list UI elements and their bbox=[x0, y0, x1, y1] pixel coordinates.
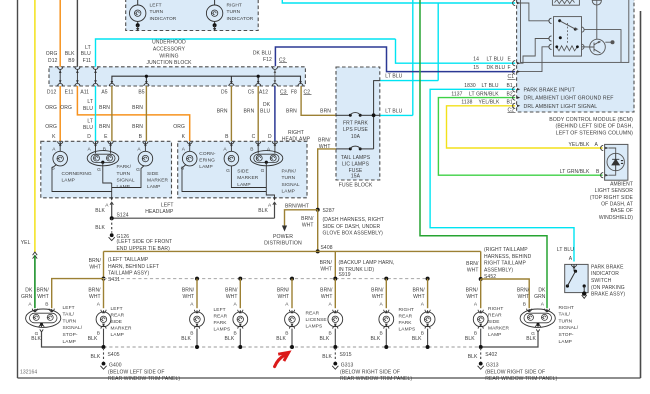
svg-text:15: 15 bbox=[473, 65, 479, 71]
wire YEL/BLK 1138 ambient signal bbox=[447, 106, 603, 148]
svg-text:D12: D12 bbox=[47, 89, 57, 95]
label BRN/WHT at fuse 2 input bbox=[318, 138, 331, 150]
svg-text:JUNCTION BLOCK: JUNCTION BLOCK bbox=[146, 60, 192, 66]
svg-text:LT BLU: LT BLU bbox=[385, 74, 402, 80]
wire LT BLU vertical B (fuse to top net) bbox=[412, 0, 414, 115]
svg-text:ORG: ORG bbox=[173, 124, 185, 130]
svg-text:CORNERING: CORNERING bbox=[62, 171, 92, 177]
lamp LEFT REAR PARK 1 bbox=[181, 302, 204, 347]
junction block caption bbox=[146, 39, 192, 66]
svg-text:WHT: WHT bbox=[320, 267, 332, 273]
svg-text:S402: S402 bbox=[485, 352, 497, 358]
svg-text:G313: G313 bbox=[341, 363, 354, 369]
left cornering lamp bbox=[51, 141, 92, 183]
svg-text:BASE OF: BASE OF bbox=[611, 208, 633, 214]
svg-text:TURN: TURN bbox=[117, 171, 131, 177]
splice S405 bbox=[91, 348, 120, 362]
svg-text:BLK: BLK bbox=[95, 225, 105, 231]
svg-text:F11: F11 bbox=[83, 58, 92, 64]
wire LT BLU A11 to left park/turn lamp bbox=[95, 86, 97, 141]
lamp RIGHT TURN INDICATOR bbox=[206, 0, 253, 31]
svg-text:G: G bbox=[97, 167, 101, 173]
svg-text:BRN/: BRN/ bbox=[320, 288, 333, 294]
svg-text:POWER: POWER bbox=[273, 234, 293, 240]
svg-text:(LEFT TAILLAMP: (LEFT TAILLAMP bbox=[108, 257, 149, 263]
lamp LEFT REAR PARK 2 bbox=[225, 302, 248, 347]
terminal letters above right headlamp bbox=[225, 134, 272, 140]
svg-text:MARKER: MARKER bbox=[237, 175, 259, 181]
svg-text:INDICATOR: INDICATOR bbox=[591, 271, 619, 277]
wire BLK S124 to G126 bbox=[95, 218, 111, 232]
svg-text:GLOVE BOX ASSEMBLY): GLOVE BOX ASSEMBLY) bbox=[323, 231, 384, 237]
terminal labels below junction block bbox=[47, 89, 312, 95]
svg-text:F: F bbox=[508, 65, 511, 71]
svg-text:REAR: REAR bbox=[488, 313, 502, 319]
svg-text:WHT: WHT bbox=[278, 294, 290, 300]
svg-text:(LEFT SIDE OF FRONT: (LEFT SIDE OF FRONT bbox=[117, 239, 173, 245]
wire BRN D5 to right side marker lamp bbox=[230, 86, 232, 141]
note left taillamp harness bbox=[108, 257, 159, 277]
wire BLK vertical to B9 bbox=[76, 0, 78, 67]
svg-text:BRN: BRN bbox=[243, 108, 254, 114]
wire BRN/WHT bus left drop to S431 bbox=[103, 251, 105, 278]
svg-text:LEFT OF STEERING COLUMN): LEFT OF STEERING COLUMN) bbox=[556, 130, 633, 136]
svg-text:ORG: ORG bbox=[60, 105, 72, 111]
lamp LEFT TAIL/TURN SIGNAL/STOP oval bbox=[26, 302, 83, 345]
svg-text:YEL: YEL bbox=[21, 240, 31, 246]
wire YEL vertical (turn signal feed) bbox=[34, 0, 36, 252]
svg-text:S915: S915 bbox=[340, 352, 352, 358]
ground G313 right bbox=[478, 362, 558, 382]
ground G126 bbox=[109, 233, 173, 252]
svg-text:RIGHT: RIGHT bbox=[559, 305, 574, 311]
svg-text:SIDE OF DASH, UNDER: SIDE OF DASH, UNDER bbox=[323, 224, 381, 230]
wire ORG vertical to D12 bbox=[59, 0, 61, 67]
svg-text:B5: B5 bbox=[138, 89, 144, 95]
svg-text:LAMP: LAMP bbox=[62, 177, 75, 183]
left park/turn signal lamp bbox=[87, 141, 135, 190]
wire BRN/WHT to power distribution arrow bbox=[285, 203, 318, 225]
svg-text:BLK: BLK bbox=[468, 354, 478, 360]
svg-text:A12: A12 bbox=[259, 89, 268, 95]
svg-text:BRN/: BRN/ bbox=[88, 288, 101, 294]
lamp RIGHT REAR PARK 1 bbox=[371, 302, 394, 347]
svg-text:SIGNAL: SIGNAL bbox=[282, 182, 300, 188]
svg-text:REAR: REAR bbox=[214, 314, 228, 320]
row text PARK BRAKE INPUT bbox=[513, 87, 576, 94]
lamp REAR LICENSE 1 bbox=[276, 302, 299, 347]
svg-text:BLK: BLK bbox=[322, 354, 332, 360]
wire color labels row 1 bbox=[45, 99, 297, 114]
svg-text:FUSE BLOCK: FUSE BLOCK bbox=[339, 183, 373, 189]
svg-text:BRN: BRN bbox=[217, 108, 228, 114]
svg-text:LAMP: LAMP bbox=[282, 188, 295, 194]
svg-text:SIGNAL: SIGNAL bbox=[117, 177, 135, 183]
svg-text:LAMP: LAMP bbox=[488, 332, 501, 338]
svg-text:BLK: BLK bbox=[526, 336, 536, 342]
note backup lamp harness S919 bbox=[339, 260, 395, 278]
svg-text:(ON PARKING: (ON PARKING bbox=[591, 285, 625, 291]
connector label C2 at BCM bbox=[508, 108, 516, 114]
junction block pass-through D12 bbox=[58, 67, 63, 86]
svg-text:F8: F8 bbox=[291, 89, 297, 95]
svg-text:SIDE: SIDE bbox=[111, 319, 123, 325]
svg-text:DK: DK bbox=[25, 288, 33, 294]
svg-text:LICENSE: LICENSE bbox=[306, 317, 327, 323]
svg-text:SWITCH: SWITCH bbox=[591, 278, 612, 284]
row text DRL AMBIENT LIGHT GROUND REF bbox=[513, 95, 614, 102]
svg-text:14: 14 bbox=[473, 56, 479, 62]
wire BLK right taillamp ground to S402 bbox=[481, 332, 538, 347]
BCM internal resistor box bbox=[552, 0, 579, 5]
wire DK GRN to left taillamp bbox=[21, 255, 35, 308]
wire LT BLU horizontal top (indicator feed) bbox=[282, 0, 515, 3]
wire LT BLU horizontal link y80 bbox=[380, 80, 438, 82]
svg-text:BLK: BLK bbox=[95, 208, 105, 214]
red annotation arrow bbox=[275, 355, 285, 367]
svg-text:LEFT: LEFT bbox=[150, 3, 162, 9]
wire LT BLU vertical C bbox=[437, 3, 439, 81]
svg-text:BRN: BRN bbox=[99, 124, 110, 130]
wire DK BLU F12 loop to BCM F bbox=[275, 47, 515, 72]
svg-text:MARKER: MARKER bbox=[147, 177, 169, 183]
svg-text:B: B bbox=[103, 147, 106, 153]
svg-text:WHT: WHT bbox=[467, 268, 479, 274]
ground bus dashed bbox=[104, 346, 481, 348]
svg-text:LIGHT SENSOR: LIGHT SENSOR bbox=[595, 188, 634, 194]
svg-text:ASSEMBLY): ASSEMBLY) bbox=[484, 267, 513, 273]
svg-text:LEFT: LEFT bbox=[161, 202, 174, 208]
svg-text:BRN/: BRN/ bbox=[182, 288, 195, 294]
wire BRN/WHT main rear feed bus bbox=[104, 250, 481, 252]
svg-text:B: B bbox=[250, 147, 253, 153]
svg-text:WHT: WHT bbox=[372, 294, 384, 300]
svg-text:LT: LT bbox=[85, 45, 91, 51]
svg-text:(BELOW RIGHT SIDE OF: (BELOW RIGHT SIDE OF bbox=[485, 369, 545, 375]
instrument cluster box (turn indicators) bbox=[126, 0, 259, 31]
lamp RIGHT REAR PARK 2 bbox=[412, 302, 435, 347]
FUSE BLOCK box bbox=[336, 67, 380, 180]
ground G400 bbox=[100, 362, 180, 382]
svg-text:LT BLU: LT BLU bbox=[482, 83, 499, 89]
svg-text:K: K bbox=[182, 134, 186, 140]
LEFT HEADLAMP assembly box bbox=[41, 141, 172, 198]
svg-text:A: A bbox=[595, 142, 599, 148]
svg-text:BRN/: BRN/ bbox=[371, 288, 384, 294]
junction block pass-through B9-E11 bbox=[75, 67, 80, 86]
svg-text:SIGNAL/: SIGNAL/ bbox=[63, 325, 83, 331]
svg-text:WHT: WHT bbox=[302, 223, 314, 229]
svg-text:1137: 1137 bbox=[451, 92, 462, 98]
svg-text:K: K bbox=[52, 134, 56, 140]
svg-text:TAIL/: TAIL/ bbox=[63, 312, 75, 318]
svg-text:BLK: BLK bbox=[91, 354, 101, 360]
svg-text:WHT: WHT bbox=[321, 294, 333, 300]
svg-text:(TOP RIGHT SIDE: (TOP RIGHT SIDE bbox=[590, 195, 634, 201]
svg-text:YEL/BLK: YEL/BLK bbox=[479, 100, 501, 106]
splice S915 bbox=[322, 348, 351, 362]
svg-text:BRN: BRN bbox=[99, 105, 110, 111]
svg-text:BLK: BLK bbox=[31, 336, 41, 342]
svg-text:(BELOW LEFT SIDE OF: (BELOW LEFT SIDE OF bbox=[108, 369, 165, 375]
label 15 DK BLU F bbox=[473, 65, 510, 71]
wire BRN/WHT S452 down to right side marker bbox=[480, 279, 482, 308]
svg-text:BRN: BRN bbox=[286, 108, 297, 114]
svg-text:REAR WINDOW TRIM PANEL): REAR WINDOW TRIM PANEL) bbox=[108, 376, 180, 382]
svg-text:RIGHT: RIGHT bbox=[399, 307, 414, 313]
label LEFT REAR PARK LAMPS bbox=[214, 307, 231, 333]
wire BRN/WHT S431 down to left side marker bbox=[103, 279, 105, 309]
svg-text:D: D bbox=[87, 134, 91, 140]
svg-text:BRN/: BRN/ bbox=[320, 260, 333, 266]
row text DRL AMBIENT LIGHT SIGNAL bbox=[513, 103, 598, 110]
svg-text:RIGHT: RIGHT bbox=[488, 306, 503, 312]
junction block internal bus bbox=[109, 67, 303, 86]
label 14 LT BLU E bbox=[473, 56, 511, 62]
svg-text:ORG: ORG bbox=[45, 105, 57, 111]
wire LT GRN/BLK 1137 ambient ground ref bbox=[438, 98, 602, 176]
svg-text:BRN/: BRN/ bbox=[301, 216, 314, 222]
note dash harness bbox=[323, 217, 384, 237]
svg-text:WINDSHIELD): WINDSHIELD) bbox=[599, 215, 633, 221]
svg-text:BLK: BLK bbox=[465, 336, 475, 342]
svg-text:TURN: TURN bbox=[63, 318, 77, 324]
label RIGHT REAR PARK LAMPS bbox=[399, 307, 416, 333]
wire BRN B5 to left side marker lamp bbox=[145, 86, 147, 141]
svg-text:D: D bbox=[268, 134, 272, 140]
svg-text:LT: LT bbox=[87, 119, 93, 125]
svg-text:INDICATOR: INDICATOR bbox=[227, 16, 254, 22]
wire LT BLU vertical to BCM E bbox=[396, 39, 516, 63]
svg-text:B9: B9 bbox=[68, 58, 74, 64]
ambient light sensor photodiode bbox=[607, 153, 624, 170]
svg-text:HARN, BEHIND LEFT: HARN, BEHIND LEFT bbox=[108, 264, 159, 270]
svg-text:AMBIENT: AMBIENT bbox=[610, 181, 633, 187]
svg-text:WHT: WHT bbox=[89, 265, 101, 271]
svg-text:1830: 1830 bbox=[464, 83, 476, 89]
wire BRN/WHT S287 to S408 bbox=[317, 210, 319, 252]
UNDERHOOD ACCESSORY WIRING JUNCTION BLOCK box bbox=[49, 67, 305, 86]
svg-text:DK: DK bbox=[538, 288, 546, 294]
svg-text:RIGHT TAILLAMP: RIGHT TAILLAMP bbox=[484, 261, 527, 267]
svg-text:E: E bbox=[104, 134, 108, 140]
wire DK GRN feed to right taillamp bbox=[420, 0, 547, 308]
wire DK BLU A12 to right park/turn lamp bbox=[274, 86, 276, 141]
svg-text:BLK: BLK bbox=[412, 336, 422, 342]
left headlamp ground exit connector bbox=[95, 197, 113, 218]
svg-text:LAMP: LAMP bbox=[237, 182, 250, 188]
note right taillamp harness bbox=[484, 247, 532, 280]
svg-text:B: B bbox=[139, 134, 143, 140]
label BRN/WHT center drop bbox=[320, 260, 333, 273]
svg-text:TAIL LAMPS: TAIL LAMPS bbox=[341, 155, 371, 161]
svg-text:1138: 1138 bbox=[461, 100, 472, 106]
svg-text:BRN/: BRN/ bbox=[517, 288, 530, 294]
splice S287 bbox=[316, 208, 335, 214]
splice S431 bbox=[102, 277, 121, 284]
svg-text:SIDE: SIDE bbox=[488, 319, 500, 325]
svg-text:LT BLU: LT BLU bbox=[557, 247, 574, 253]
svg-text:WHT: WHT bbox=[89, 294, 101, 300]
right headlamp ground exit connector bbox=[258, 197, 276, 218]
wire LT BLU fuse output link bbox=[380, 114, 413, 116]
svg-text:HARNESS, BEHIND: HARNESS, BEHIND bbox=[484, 254, 532, 260]
svg-text:SIGNAL/: SIGNAL/ bbox=[559, 325, 579, 331]
BCM caption bbox=[549, 117, 633, 137]
svg-text:LT GRN/BLK: LT GRN/BLK bbox=[469, 92, 499, 98]
svg-text:PARK BRAKE INPUT: PARK BRAKE INPUT bbox=[524, 87, 576, 93]
svg-text:BLU: BLU bbox=[83, 125, 93, 131]
svg-text:D5: D5 bbox=[221, 89, 228, 95]
svg-text:S287: S287 bbox=[323, 208, 335, 214]
park brake indicator switch box bbox=[565, 264, 588, 298]
svg-text:GRN: GRN bbox=[21, 294, 33, 300]
BCM edge connectors C1 bbox=[513, 0, 521, 74]
wire color labels row 2 bbox=[45, 119, 185, 131]
svg-text:B1: B1 bbox=[507, 100, 513, 106]
svg-text:YEL/BLK: YEL/BLK bbox=[569, 142, 591, 148]
terminal letters above left headlamp bbox=[52, 134, 186, 140]
svg-text:FRT PARK: FRT PARK bbox=[343, 121, 369, 127]
BCM internal wiring bbox=[517, 3, 621, 72]
svg-text:BLK: BLK bbox=[320, 336, 330, 342]
label 1138 YEL/BLK B1 bbox=[461, 100, 513, 106]
label DK BLU F12 bbox=[253, 51, 272, 64]
svg-text:PARK: PARK bbox=[399, 320, 413, 326]
svg-text:DRL AMBIENT LIGHT GROUND REF: DRL AMBIENT LIGHT GROUND REF bbox=[524, 96, 614, 102]
feed drops to rear lamps bbox=[195, 277, 430, 309]
svg-text:PARK/: PARK/ bbox=[117, 164, 132, 170]
wire BRN/WHT bus right drop to S452 bbox=[480, 251, 482, 279]
BCM inner module outline bbox=[521, 0, 629, 62]
svg-text:PARK: PARK bbox=[214, 320, 228, 326]
svg-text:G: G bbox=[136, 167, 140, 173]
label 1137 LT GRN/BLK B2 bbox=[451, 92, 513, 98]
svg-text:INDICATOR: INDICATOR bbox=[150, 16, 177, 22]
svg-text:CORN-: CORN- bbox=[199, 151, 216, 157]
svg-text:REAR: REAR bbox=[399, 314, 413, 320]
svg-text:E: E bbox=[508, 56, 512, 62]
svg-text:SIDE: SIDE bbox=[237, 169, 249, 175]
svg-text:WHT: WHT bbox=[518, 294, 530, 300]
svg-text:BRN: BRN bbox=[132, 105, 143, 111]
svg-text:B2: B2 bbox=[507, 92, 513, 98]
wire BRN/WHT backup-harness dashed feed bus bbox=[104, 278, 430, 280]
svg-text:LEFT: LEFT bbox=[214, 307, 226, 313]
svg-text:LAMPS: LAMPS bbox=[214, 327, 231, 333]
lamp RIGHT REAR SIDE MARKER bbox=[465, 302, 510, 347]
svg-text:BRN/WHT: BRN/WHT bbox=[285, 203, 309, 209]
svg-text:MARKER: MARKER bbox=[111, 326, 133, 332]
svg-text:G: G bbox=[261, 168, 265, 174]
svg-text:(BELOW RIGHT SIDE OF: (BELOW RIGHT SIDE OF bbox=[340, 369, 400, 375]
svg-text:BODY CONTROL MODULE (BCM): BODY CONTROL MODULE (BCM) bbox=[549, 117, 633, 123]
svg-text:PARK/: PARK/ bbox=[282, 169, 297, 175]
svg-text:BRN: BRN bbox=[132, 124, 143, 130]
svg-text:BLK: BLK bbox=[276, 336, 286, 342]
label BRN/WHT right drop bbox=[466, 261, 479, 274]
svg-text:TAIL/: TAIL/ bbox=[559, 312, 571, 318]
lamp LEFT REAR SIDE MARKER bbox=[88, 302, 132, 347]
wire ORG E11 jog to right cornering lamp bbox=[77, 86, 189, 141]
svg-text:C: C bbox=[252, 134, 256, 140]
ambient light sensor box bbox=[569, 142, 628, 180]
off-page arrow POWER DISTRIBUTION bbox=[264, 226, 302, 247]
left headlamp ground wiring bbox=[52, 162, 144, 198]
svg-text:(DASH HARNESS, RIGHT: (DASH HARNESS, RIGHT bbox=[323, 217, 384, 223]
svg-text:B: B bbox=[45, 302, 48, 308]
svg-text:BRN/: BRN/ bbox=[225, 288, 238, 294]
label REAR LICENSE LAMPS bbox=[306, 310, 327, 329]
svg-text:WHT: WHT bbox=[413, 294, 425, 300]
svg-text:BLK: BLK bbox=[181, 336, 191, 342]
svg-text:LAMPS: LAMPS bbox=[306, 323, 323, 329]
label BLK B9 bbox=[65, 51, 75, 64]
svg-text:REAR WINDOW TRIM PANEL): REAR WINDOW TRIM PANEL) bbox=[340, 376, 412, 382]
svg-text:B: B bbox=[523, 302, 526, 308]
splice S124 bbox=[110, 213, 275, 221]
svg-text:BLK: BLK bbox=[88, 336, 98, 342]
wire LT BLU junction block F11 riser bbox=[96, 39, 396, 67]
svg-text:LEFT: LEFT bbox=[63, 305, 75, 311]
svg-text:BRN/: BRN/ bbox=[318, 138, 331, 144]
svg-text:B1: B1 bbox=[507, 83, 513, 89]
fuse FRT PARK LPS FUSE 10A bbox=[336, 113, 374, 140]
svg-text:BRN/: BRN/ bbox=[412, 288, 425, 294]
svg-text:A5: A5 bbox=[101, 89, 107, 95]
label BRN/WHT left drop bbox=[89, 258, 102, 271]
svg-text:BLU: BLU bbox=[83, 106, 93, 112]
splice S402 bbox=[468, 348, 498, 362]
park brake switch caption bbox=[591, 264, 625, 297]
svg-text:STOP-: STOP- bbox=[63, 332, 78, 338]
right headlamp ground wiring bbox=[182, 162, 275, 198]
svg-text:WHT: WHT bbox=[226, 294, 238, 300]
left side marker lamp bbox=[136, 141, 168, 190]
wire BRN/WHT S431 to left taillamp bbox=[52, 279, 104, 309]
svg-text:D12: D12 bbox=[48, 58, 58, 64]
svg-text:BLK: BLK bbox=[225, 336, 235, 342]
lamp REAR LICENSE 2 bbox=[320, 302, 343, 347]
svg-text:LAMP: LAMP bbox=[147, 184, 160, 190]
svg-text:B: B bbox=[225, 134, 229, 140]
svg-text:REAR WINDOW TRIM PANEL): REAR WINDOW TRIM PANEL) bbox=[485, 376, 557, 382]
right park/turn signal lamp bbox=[250, 141, 300, 194]
svg-text:RIGHT: RIGHT bbox=[227, 3, 242, 9]
svg-text:ERING: ERING bbox=[199, 158, 215, 164]
svg-text:LPS FUSE: LPS FUSE bbox=[343, 127, 369, 133]
svg-text:LT BLU: LT BLU bbox=[487, 56, 504, 62]
svg-text:DISTRIBUTION: DISTRIBUTION bbox=[264, 241, 302, 247]
wire ORG D12 to left cornering lamp bbox=[59, 86, 61, 141]
RIGHT HEADLAMP assembly box bbox=[178, 141, 307, 198]
BCM transistor bbox=[590, 39, 615, 55]
junction block pass-through F11-A11 bbox=[93, 67, 98, 86]
svg-text:TAILLAMP ASSY): TAILLAMP ASSY) bbox=[108, 271, 149, 277]
svg-text:HEADLAMP: HEADLAMP bbox=[145, 209, 174, 215]
BODY CONTROL MODULE box bbox=[517, 0, 634, 112]
svg-text:UNDERHOOD: UNDERHOOD bbox=[152, 39, 186, 45]
svg-text:BLU: BLU bbox=[260, 108, 270, 114]
svg-text:STOP-: STOP- bbox=[559, 332, 574, 338]
svg-text:ACCESSORY: ACCESSORY bbox=[153, 47, 186, 53]
svg-text:RIGHT: RIGHT bbox=[288, 130, 304, 136]
svg-text:A: A bbox=[569, 256, 573, 262]
label LT GRN/BLK B bbox=[560, 169, 600, 175]
svg-text:DK BLU: DK BLU bbox=[487, 65, 506, 71]
ground bus junction dots bbox=[102, 345, 483, 349]
svg-text:DK BLU: DK BLU bbox=[253, 51, 272, 57]
